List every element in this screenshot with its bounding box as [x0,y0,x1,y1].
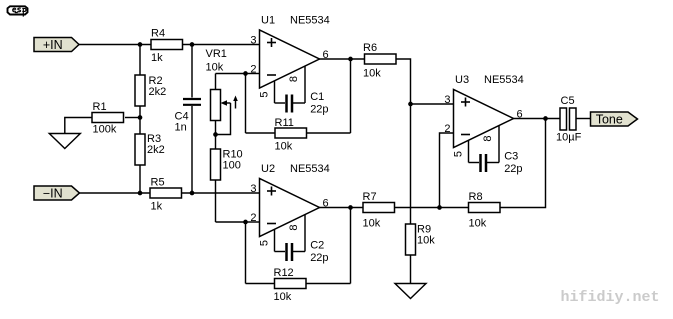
capacitor C4 1n [175,45,202,194]
svg-text:10k: 10k [363,218,381,230]
wire R9 to ground [410,255,412,284]
resistor R11 [275,117,307,153]
resistor R7 [363,191,395,230]
svg-text:10k: 10k [469,218,487,230]
node junction U3pin2/R7/R8 [437,205,442,210]
resistor R9 [406,224,436,256]
resistor R2 [135,75,166,106]
resistor R12 [274,267,307,303]
capacitor C2 22p (comp between pins 5 and 8 of U2) [275,240,329,265]
node junction -IN/R3/R5 [138,191,143,196]
resistor R8 [469,191,501,230]
wire U3 pin2 down to R7/R8 net [440,133,454,208]
node junction R1/R2/R3 [138,115,143,120]
svg-text:hifidiy.net: hifidiy.net [561,289,660,306]
svg-text:Tone: Tone [596,113,623,127]
wire C5 to Tone terminal [576,118,591,120]
node junction R4/C4/U1pin3 [190,42,195,47]
resistor R6 [363,42,396,80]
svg-text:10k: 10k [363,68,381,80]
svg-text:R5: R5 [151,177,165,189]
wire U2 output to R7 [320,207,364,209]
svg-text:U3: U3 [455,74,469,86]
wire to U3 pin 3 [411,103,454,105]
ground (left) [49,134,80,149]
wire to R12 left [246,283,275,285]
svg-text:3: 3 [444,94,450,106]
node junction VR1 bottom/wiper/R10 [213,132,218,137]
wire R11 up to U1 output [350,59,352,133]
wire R3 to -IN net [139,165,141,193]
svg-text:VR1: VR1 [206,48,227,60]
wire R1 to ground [65,118,92,134]
svg-text:10k: 10k [206,62,224,74]
wire R12 right [307,283,351,285]
wire U1 pin2 down to R11 [245,74,247,134]
svg-text:8: 8 [288,76,300,82]
op-amp U1 NE5534 [250,15,329,104]
svg-text:22p: 22p [504,163,522,175]
svg-text:3: 3 [250,35,256,47]
resistor R5 [150,177,182,213]
wire R4 to U1 pin 3 [183,44,260,46]
wire R10 to U2 pin 2 net (crosses -IN net) [215,180,217,222]
node junction U2out/R7/R12 [348,205,353,210]
svg-text:NE5534: NE5534 [290,15,330,27]
svg-text:R7: R7 [363,191,377,203]
svg-text:10k: 10k [275,141,293,153]
svg-text:R11: R11 [275,117,294,129]
wire to R11 left [246,132,276,134]
svg-text:100k: 100k [93,124,117,136]
wire to U1 pin 2 [246,73,260,75]
terminal −IN input [34,186,80,201]
wire R8 up to U3 output [500,119,546,208]
svg-text:5: 5 [259,240,271,246]
svg-text:R6: R6 [363,42,377,54]
svg-text:1k: 1k [151,52,163,64]
svg-text:5: 5 [453,151,465,157]
node junction +IN/R4/R2 [138,42,143,47]
svg-text:R8: R8 [469,191,483,203]
op-amp U2 NE5534 [250,163,329,252]
svg-text:U2: U2 [261,163,275,175]
wire -IN to R5 [80,192,151,194]
svg-text:8: 8 [482,135,494,141]
capacitor C1 22p (comp between pins 5 and 8 of U1) [275,91,329,116]
svg-text:C5: C5 [561,95,575,107]
svg-text:C2: C2 [310,240,324,252]
svg-text:NE5534: NE5534 [484,74,524,86]
svg-text:100: 100 [223,160,241,172]
wire to U2 pin 2 [246,221,260,223]
wire R7 to R8 (crosses R9 vertical) [395,207,469,209]
wire VR1 top lead [215,74,217,90]
svg-text:+IN: +IN [43,38,63,52]
ground (below R9) [395,284,426,299]
node junction U3out/R8/C5 [543,116,548,121]
terminal Tone output [591,112,638,127]
wire U1 output to R6 [320,58,365,60]
node junction U2pin2/R12 [243,220,248,225]
svg-text:22p: 22p [310,104,328,116]
wire R1 to junction [125,117,140,119]
op-amp U3 NE5534 [444,74,523,163]
svg-text:C1: C1 [310,91,324,103]
svg-text:5: 5 [259,91,271,97]
wire VR1 to U1 pin 2 [216,73,246,75]
wire R5 to U2 pin 3 [182,192,260,194]
node junction U1out/R6/R11 [348,57,353,62]
wire U2 pin2 down to R12 [245,222,247,284]
potentiometer VR1 10k [206,48,238,135]
svg-text:R12: R12 [274,267,294,279]
svg-text:NE5534: NE5534 [290,163,330,175]
logo esp (Elliott Sound Products) [8,6,28,16]
resistor R3 [135,133,165,165]
wire junction to R2 [139,45,141,76]
svg-text:2: 2 [250,64,256,76]
svg-text:C3: C3 [504,151,518,163]
svg-text:10µF: 10µF [556,132,582,144]
wire U3 output to C5 [514,118,561,120]
resistor R10 [211,149,243,181]
wire R12 up to U2 output [350,208,352,284]
wire R2 to R3 [139,106,141,134]
node junction U1pin2/VR1/R11 [243,71,248,76]
node junction R6/U3pin3/R9 [408,102,413,107]
terminal +IN input [34,38,79,53]
svg-text:R1: R1 [93,101,107,113]
wire R11 right [307,132,351,134]
node junction R5/C4/U2pin3 [190,191,195,196]
svg-text:22p: 22p [310,252,328,264]
svg-text:1k: 1k [151,201,163,213]
capacitor C3 22p (comp between pins 5 and 8 of U3) [469,151,523,176]
svg-text:1n: 1n [175,122,187,134]
svg-text:3: 3 [250,183,256,195]
capacitor C5 10uF [556,95,582,144]
wire VR1 bottom to R10 [215,121,217,150]
svg-text:U1: U1 [261,15,275,27]
wire R10 to U2 pin 2 [216,221,246,223]
resistor R1 [92,101,124,136]
svg-text:10k: 10k [417,235,435,247]
svg-text:2k2: 2k2 [147,144,165,156]
svg-text:R4: R4 [151,28,165,40]
svg-text:2k2: 2k2 [149,86,167,98]
wire +IN to R4 [79,44,151,46]
svg-text:−IN: −IN [43,187,63,201]
svg-text:8: 8 [288,224,300,230]
wire R6 to U3 pin3 net / down to R9 [396,59,411,224]
resistor R4 [151,28,183,65]
svg-text:10k: 10k [274,291,292,303]
